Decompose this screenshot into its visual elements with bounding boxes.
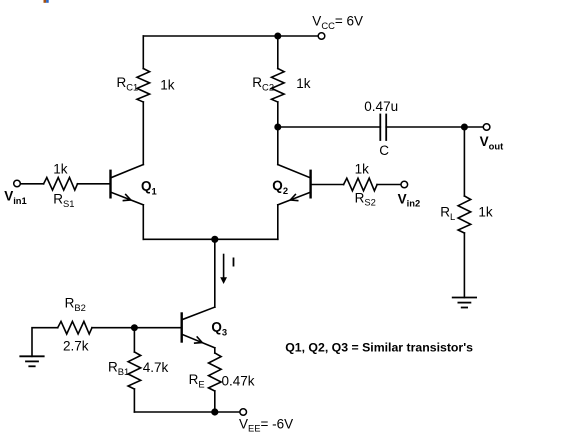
svg-text:Q1: Q1 xyxy=(141,179,157,197)
wire RS2 to Vin2 terminal xyxy=(377,184,401,186)
node output junction dot xyxy=(461,124,468,131)
svg-text:1k: 1k xyxy=(355,162,370,177)
wire Q3 base xyxy=(134,327,181,329)
node tail junction dot xyxy=(211,236,218,243)
resistor RC1 xyxy=(137,69,150,103)
resistor RE xyxy=(209,353,222,391)
svg-text:1k: 1k xyxy=(53,162,68,177)
wire RL to ground xyxy=(463,233,465,298)
node Q3 base junction dot xyxy=(131,324,138,331)
wire Vout node to RL xyxy=(463,127,465,196)
wire RB1 bottom lead xyxy=(133,389,135,412)
svg-text:1k: 1k xyxy=(160,78,175,93)
svg-text:4.7k: 4.7k xyxy=(143,360,169,375)
transistor Q2 xyxy=(278,165,311,205)
svg-text:VEE= -6V: VEE= -6V xyxy=(239,416,293,433)
wire Vin1 to RS1 xyxy=(20,183,43,185)
svg-text:C: C xyxy=(379,143,389,158)
wire top supply rail xyxy=(143,35,318,37)
svg-text:RS2: RS2 xyxy=(355,190,376,207)
capacitor C xyxy=(379,115,381,141)
transistor Q3 xyxy=(182,307,215,348)
svg-text:RS1: RS1 xyxy=(53,192,74,209)
wire RC2 bottom lead xyxy=(277,102,279,127)
svg-text:RL: RL xyxy=(440,205,455,222)
ground (right, below RL) xyxy=(453,298,476,308)
svg-text:RC1: RC1 xyxy=(117,75,139,92)
terminal Vin1 xyxy=(14,180,21,187)
svg-text:1k: 1k xyxy=(296,76,311,91)
svg-text:RB1: RB1 xyxy=(108,360,129,377)
wire node to capacitor xyxy=(278,126,381,128)
terminal VEE xyxy=(240,409,247,416)
wire Q2 collector up to node xyxy=(277,127,279,165)
stray glyph fragment top edge xyxy=(44,0,47,3)
wire RE bottom lead xyxy=(214,391,216,412)
svg-text:I: I xyxy=(232,256,235,270)
terminal Vin2 xyxy=(401,181,408,188)
svg-text:RE: RE xyxy=(189,372,205,389)
wire RC1 bottom to Q1 collector xyxy=(142,102,144,165)
wire Q2 emitter down xyxy=(277,205,279,240)
resistor RB1 xyxy=(128,352,141,389)
wire Q2 base to RS2 xyxy=(311,184,344,186)
ground (left, below RB2) xyxy=(20,356,43,366)
wire RB1 top lead xyxy=(133,328,135,352)
svg-text:1k: 1k xyxy=(478,205,493,220)
svg-text:0.47k: 0.47k xyxy=(222,374,255,389)
wire capacitor to output node xyxy=(386,126,464,128)
resistor RC2 xyxy=(272,69,285,103)
svg-text:RB2: RB2 xyxy=(65,296,86,313)
svg-text:2.7k: 2.7k xyxy=(63,339,89,354)
wire RS1 to Q1 base xyxy=(78,183,111,185)
wire tail down to Q3 collector xyxy=(214,239,216,307)
wire to Vout terminal xyxy=(464,126,483,128)
wire RC1 top lead xyxy=(142,36,144,69)
resistor RS2 xyxy=(344,178,378,191)
svg-text:Q1, Q2, Q3 = Similar transisto: Q1, Q2, Q3 = Similar transistor's xyxy=(285,340,473,354)
svg-text:VCC= 6V: VCC= 6V xyxy=(312,14,363,31)
wire RC2 top lead xyxy=(277,36,279,69)
node RC2/C2 collector junction dot xyxy=(274,124,281,131)
node VCC junction dot xyxy=(274,33,281,40)
svg-text:0.47u: 0.47u xyxy=(364,99,398,114)
node VEE junction dot xyxy=(211,408,218,415)
terminal VCC xyxy=(318,33,325,40)
resistor RS1 xyxy=(44,178,78,191)
transistor Q1 xyxy=(111,165,144,205)
svg-text:Q3: Q3 xyxy=(211,320,227,338)
svg-text:Vin1: Vin1 xyxy=(4,189,27,206)
wire VEE rail xyxy=(134,411,240,413)
terminal Vout xyxy=(483,124,490,131)
wire RB2 right to node xyxy=(92,327,134,329)
svg-text:Q2: Q2 xyxy=(272,178,288,196)
wire Q3 emitter to RE xyxy=(214,348,216,353)
current arrow I xyxy=(220,255,227,285)
svg-text:Vin2: Vin2 xyxy=(398,191,421,208)
svg-text:Vout: Vout xyxy=(480,134,504,151)
resistor RL xyxy=(458,196,471,233)
wire RB2 left to ground xyxy=(32,328,58,357)
wire emitter bus xyxy=(143,238,277,240)
resistor RB2 xyxy=(58,321,92,334)
wire Q1 emitter down xyxy=(142,205,144,240)
